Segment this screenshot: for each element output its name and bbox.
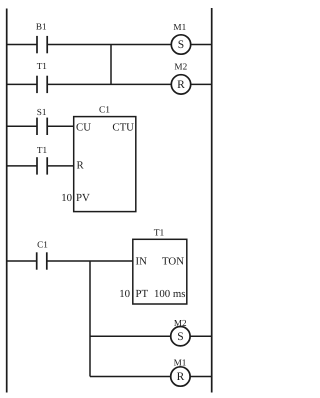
- svg-text:PV: PV: [76, 192, 90, 204]
- counter C1 function block box: [74, 117, 136, 212]
- wire rung1 left rail to contact B1: [7, 44, 37, 46]
- right power rail: [211, 8, 213, 393]
- svg-text:S: S: [177, 331, 183, 343]
- svg-text:T1: T1: [37, 61, 48, 71]
- svg-text:M1: M1: [173, 22, 186, 32]
- wire coil M2 to right rail: [190, 335, 212, 337]
- svg-text:T1: T1: [37, 145, 48, 155]
- svg-text:CU: CU: [76, 122, 91, 134]
- svg-text:M1: M1: [174, 358, 187, 368]
- left power rail: [6, 9, 8, 393]
- svg-text:PT: PT: [136, 288, 149, 300]
- svg-text:100 ms: 100 ms: [154, 288, 186, 300]
- svg-text:T1: T1: [154, 228, 165, 238]
- wire rung7 branch to coil M1: [90, 376, 171, 378]
- wire rung5 left rail to contact C1: [7, 260, 37, 262]
- wire rung6 branch to coil M2: [90, 335, 171, 337]
- wire rung4 contact T1 to counter R input: [47, 165, 73, 167]
- wire rung2 contact T1 to coil M2: [47, 83, 171, 85]
- wire rung3 contact S1 to counter CU input: [47, 125, 73, 127]
- svg-text:TON: TON: [162, 256, 184, 268]
- coil M2 (Set) bottom: [171, 327, 190, 346]
- svg-text:B1: B1: [36, 22, 47, 32]
- svg-text:IN: IN: [136, 256, 148, 268]
- svg-text:S: S: [178, 39, 184, 51]
- coil M1 (Reset) bottom: [171, 367, 190, 386]
- svg-text:S1: S1: [37, 107, 47, 117]
- wire coil M1 to right rail: [190, 376, 212, 378]
- svg-text:CTU: CTU: [112, 122, 134, 134]
- svg-text:R: R: [177, 371, 185, 383]
- wire branch from rung5 down to bottom rungs: [89, 261, 91, 377]
- contact T1 (second): [37, 157, 47, 174]
- svg-text:C1: C1: [37, 240, 48, 250]
- wire coil M2 to right rail: [191, 83, 212, 85]
- svg-text:C1: C1: [99, 106, 110, 116]
- wire coil M1 to right rail: [191, 44, 212, 46]
- contact S1: [37, 118, 47, 135]
- svg-text:10: 10: [119, 288, 130, 300]
- wire rung1 contact B1 to coil M1: [47, 44, 171, 46]
- wire rung3 left rail to contact S1: [7, 125, 37, 127]
- svg-text:R: R: [177, 79, 185, 91]
- svg-text:M2: M2: [174, 318, 187, 328]
- wire rung4 left rail to contact T1: [7, 165, 37, 167]
- wire rung2 left rail to contact T1: [7, 83, 37, 85]
- contact C1: [37, 252, 47, 269]
- coil M1 (Set): [171, 35, 190, 54]
- svg-text:10: 10: [61, 192, 72, 204]
- contact B1: [37, 36, 47, 53]
- wire junction branch rung1 to rung2: [110, 45, 112, 85]
- contact T1: [37, 76, 47, 93]
- wire rung5 contact C1 to timer IN input: [47, 260, 133, 262]
- timer T1 function block box: [133, 239, 187, 304]
- coil M2 (Reset): [171, 75, 190, 94]
- svg-text:R: R: [77, 160, 85, 172]
- svg-text:M2: M2: [174, 61, 187, 71]
